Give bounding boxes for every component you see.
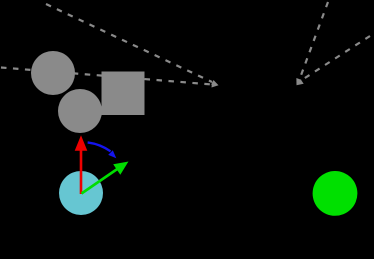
obstacle circle O1 <box>31 51 75 95</box>
obstacle square O3 <box>102 72 145 116</box>
goal circle (green) <box>313 171 358 216</box>
rotation arc (blue) <box>88 142 117 158</box>
agent robot circle (cyan) <box>59 171 103 215</box>
wire dashed trajectory A (top-left to center) <box>46 4 212 82</box>
desired velocity arrow (green) <box>82 162 129 194</box>
arrowhead D <box>297 79 304 85</box>
arrowhead B <box>212 82 219 87</box>
heading arrow (red) <box>75 135 88 194</box>
obstacle circle O2 <box>58 89 102 133</box>
wire dashed trajectory C (near vertical right) <box>300 2 328 78</box>
wire dashed trajectory D (diagonal right) <box>303 36 370 79</box>
wire dashed trajectory B (left edge horizontal) <box>1 68 212 85</box>
arrowhead A <box>211 80 218 85</box>
arrowhead C <box>296 78 301 85</box>
